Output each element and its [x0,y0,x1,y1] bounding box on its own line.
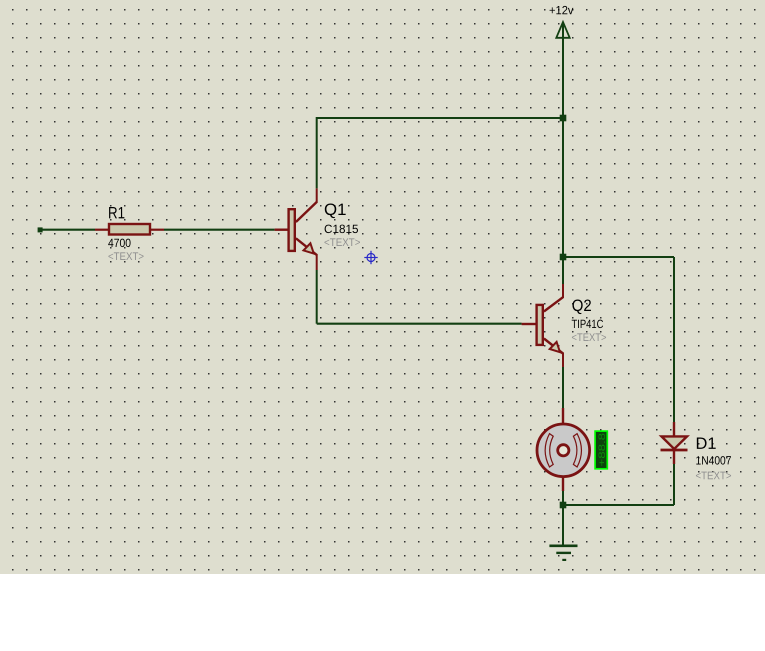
svg-text:<TEXT>: <TEXT> [695,470,731,482]
svg-text:4700: 4700 [108,236,131,250]
svg-text:+12v: +12v [549,3,574,17]
input terminal pin [38,227,43,232]
ground symbol [549,546,577,560]
svg-text:Q2: Q2 [572,297,592,315]
wire Q1 collector vertical [316,117,318,188]
wire bottom rail to junction C [563,504,674,506]
svg-text:<TEXT>: <TEXT> [108,251,144,263]
node junction B [560,254,567,261]
wire Q1 emitter to Q2 base [317,323,522,325]
wire right rail down to D1 [673,257,675,422]
motor bottom pin stub [562,477,564,491]
node junction A [560,115,567,122]
wire input to R1 [40,229,95,231]
node junction C [560,502,567,509]
resistor R1 right pin stub [150,229,164,231]
transistor Q2 base stub [522,323,536,325]
svg-text:R1: R1 [108,204,125,222]
wire vertical junction A to junction B [562,118,564,257]
diode D1 cathode stub [673,450,675,464]
resistor R1 left pin stub [95,229,109,231]
svg-text:+88.8: +88.8 [597,433,607,467]
svg-text:D1: D1 [695,435,716,453]
wire junction B to right rail [563,256,674,258]
svg-text:<TEXT>: <TEXT> [571,332,606,344]
wire power rail vertical from +12v to junction A [562,23,564,118]
wire Q2 emitter to motor [562,367,564,408]
transistor Q1 base stub [275,228,288,230]
power terminal arrow symbol [556,22,569,38]
svg-text:<TEXT>: <TEXT> [324,237,361,249]
wire Q1 emitter down [316,270,318,324]
motor display readout [595,431,607,469]
svg-text:TIP41C: TIP41C [571,317,603,331]
svg-text:Q1: Q1 [324,201,347,219]
resistor R1 body [109,224,150,235]
origin marker crosshair [364,251,377,264]
wire horizontal Q1 collector to power rail [317,117,563,119]
motor top pin stub [562,408,564,424]
svg-text:1N4007: 1N4007 [695,453,731,467]
diode D1 anode stub [673,422,675,437]
transistor Q2 body [537,284,563,368]
wire junction B down to Q2 collector [562,257,564,284]
svg-text:C1815: C1815 [324,222,359,236]
motor M1 body [537,424,590,477]
transistor Q1 body [289,188,317,270]
wire R1 to Q1 base [164,229,275,231]
diode D1 body [661,436,688,450]
wire junction C to ground [562,505,564,546]
wire motor to junction C [562,491,564,505]
wire D1 down to bottom rail [673,464,675,505]
